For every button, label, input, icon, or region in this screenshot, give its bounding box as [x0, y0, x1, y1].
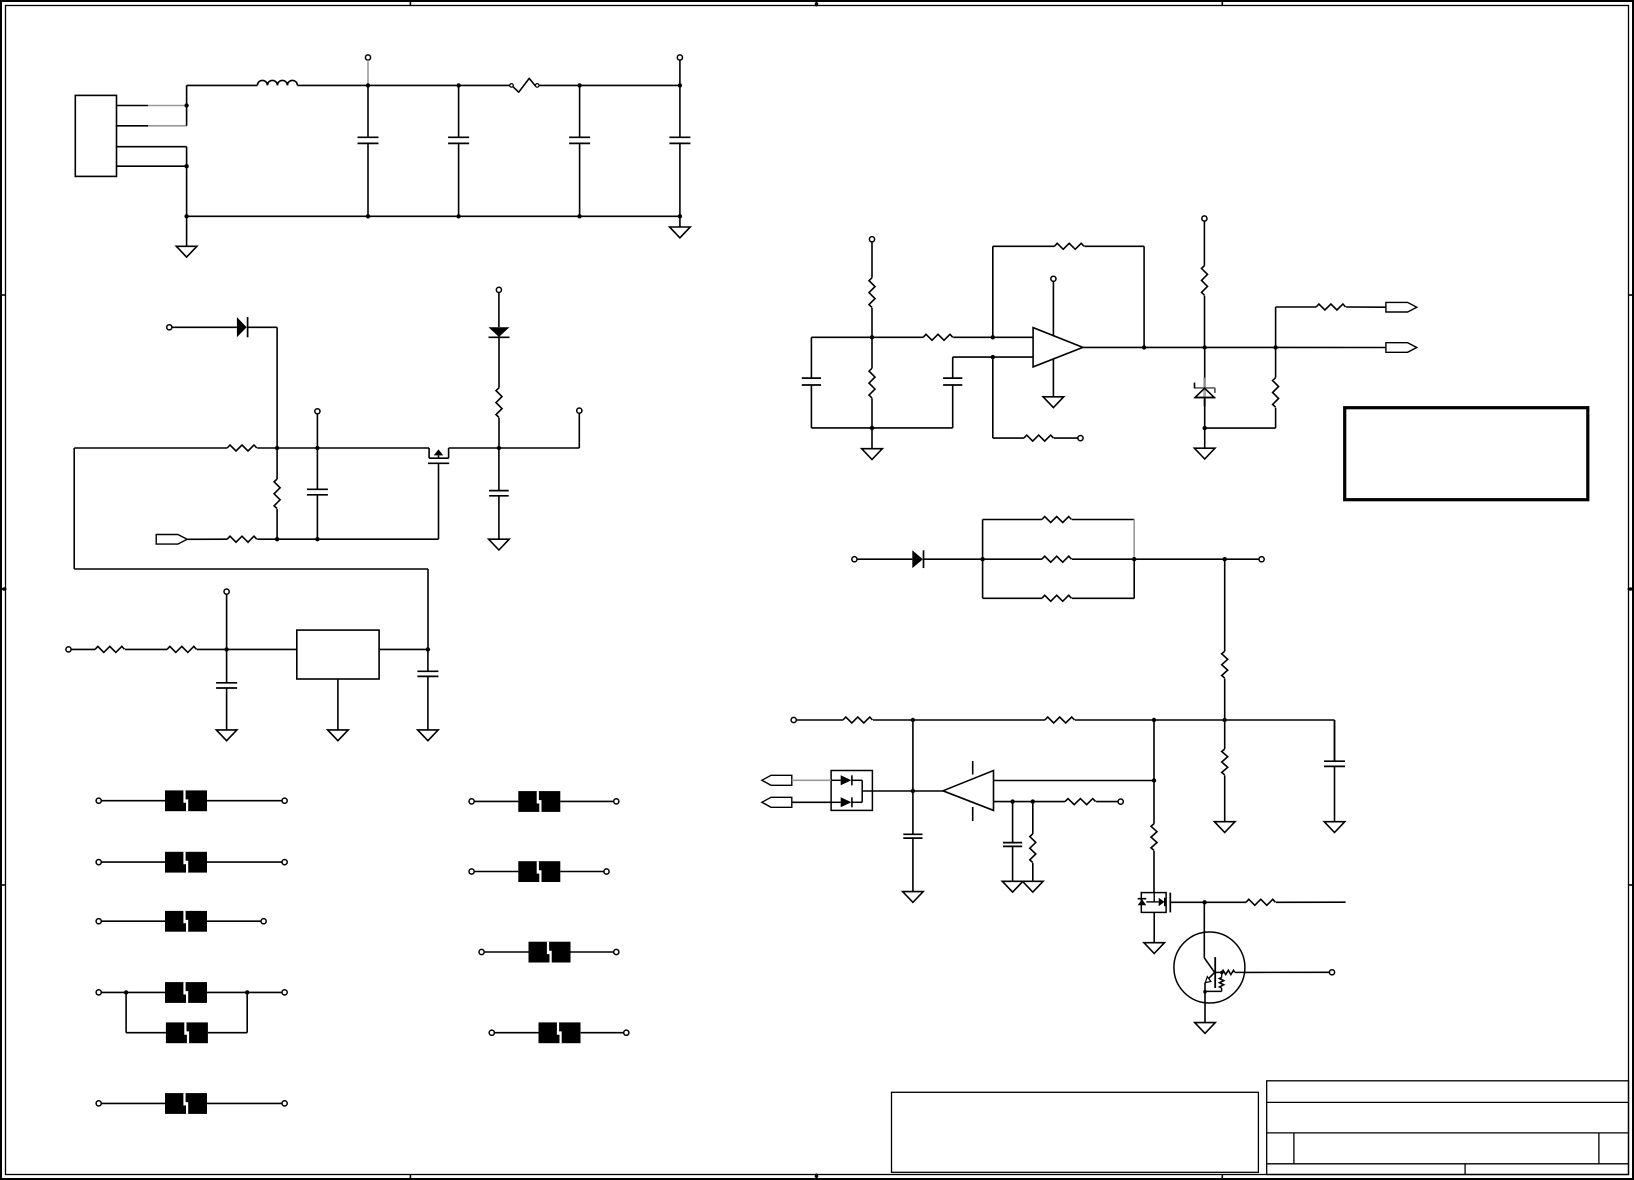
- wire div up: [1275, 307, 1277, 348]
- resistor R15: [1042, 517, 1072, 523]
- ferrite bead FB8: [518, 861, 560, 882]
- ground GND14: [903, 892, 924, 903]
- junction FB4 right: [245, 990, 249, 994]
- wire feedback down: [1143, 246, 1145, 347]
- junction opamp in+ node: [870, 335, 874, 339]
- border zone tick top-right: [1221, 1, 1223, 6]
- terminal T8: [224, 589, 229, 594]
- diode D1: [237, 317, 248, 337]
- terminal T11: [1202, 216, 1207, 221]
- terminal FB6 right: [282, 1101, 287, 1106]
- wire network top right: [1072, 519, 1134, 521]
- wire R1 to mosfet: [257, 447, 429, 449]
- terminal FB4 right: [282, 990, 287, 995]
- border zone tick right-lower: [1629, 884, 1634, 886]
- wire zener top: [1204, 348, 1206, 389]
- terminal FB3 right: [261, 919, 266, 924]
- resistor R20: [1045, 717, 1075, 723]
- junction R2 bottom: [275, 537, 279, 541]
- terminal T4: [315, 409, 320, 414]
- wire network to T13: [1134, 558, 1261, 560]
- wire D2 to R4: [498, 337, 500, 388]
- resistor R10: [869, 368, 875, 398]
- wire FB3 left: [101, 920, 165, 922]
- junction C1 top: [366, 83, 370, 87]
- wire R7 to node: [871, 308, 873, 338]
- junction J1 pin1: [184, 103, 188, 107]
- net flag OUT_B: [1386, 343, 1417, 353]
- border zone tick left-lower: [1, 884, 6, 886]
- wire flag IN_N: [792, 801, 831, 803]
- wire Q3 emitter gnd: [1204, 992, 1206, 1023]
- wire rail7 a: [796, 719, 843, 721]
- regulator U1: [297, 630, 379, 679]
- wire in- from cap: [953, 356, 1033, 358]
- resistor R12: [1202, 266, 1208, 296]
- ground GND3: [489, 539, 510, 550]
- junction gnd node opamp: [870, 426, 874, 430]
- wire FB3 right: [207, 920, 264, 922]
- wire comp out vertical: [912, 720, 914, 791]
- ground GND16: [1195, 1023, 1216, 1034]
- junction zener gnd: [1203, 426, 1207, 430]
- junction J1 pin4: [184, 164, 188, 168]
- junction C5 top: [315, 446, 319, 450]
- wire FB7 right: [560, 800, 616, 802]
- border zone tick right-upper: [1629, 294, 1634, 296]
- diode D3: [912, 550, 923, 568]
- wire R2 to bottom: [276, 509, 278, 539]
- wire R10 top: [871, 337, 873, 368]
- net flag IN_P: [762, 775, 792, 785]
- terminal T14: [791, 717, 796, 722]
- wire FB2 left: [101, 861, 165, 863]
- wire U2 gnd pin: [1052, 359, 1054, 397]
- capacitor C7: [216, 649, 237, 730]
- net flag IN_N: [762, 797, 792, 807]
- wire corner down to node A: [276, 327, 278, 448]
- wire network mid right: [1072, 558, 1134, 560]
- terminal FB9 right: [614, 949, 619, 954]
- terminal FB6 left: [96, 1101, 101, 1106]
- wire FB10 right: [581, 1032, 627, 1034]
- wire feedback top left: [993, 245, 1055, 247]
- junction output Rdiv: [1273, 345, 1277, 349]
- junction sense node: [1223, 557, 1227, 561]
- terminal FB1 left: [96, 798, 101, 803]
- resistor R7: [869, 278, 875, 308]
- capacitor C13: [903, 791, 922, 892]
- wire in- tap down: [992, 357, 994, 438]
- dual diode D4/D5 package: [831, 771, 872, 811]
- wire comp in+ rail: [994, 780, 1155, 782]
- wire R4 to node: [498, 418, 500, 448]
- inductor L1: [257, 80, 297, 85]
- border zone tick top-center with dot: [815, 1, 819, 7]
- resistor R11: [1024, 435, 1054, 441]
- terminal T5: [496, 287, 501, 292]
- wire feedback top right: [1084, 245, 1144, 247]
- resistor R21: [1222, 749, 1228, 775]
- junction C3 top: [577, 83, 581, 87]
- terminal T10: [1078, 436, 1083, 441]
- wire R22 to Q2: [1153, 851, 1155, 893]
- wire R18 to rail: [1224, 678, 1226, 720]
- wire J1 pin2 black part: [117, 125, 149, 127]
- wire U1 gnd pin: [337, 679, 339, 730]
- resistor R19: [843, 717, 873, 723]
- ground GND8 U2: [1043, 397, 1064, 408]
- ferrite bead FB6: [165, 1093, 207, 1114]
- wire R25 dangling: [1276, 901, 1346, 903]
- junction FB4 left: [124, 990, 128, 994]
- junction comp in+: [1152, 778, 1156, 782]
- junction feedback node: [991, 335, 995, 339]
- wire J1 pin2 gray part: [148, 125, 187, 127]
- wire T9 stem: [871, 242, 873, 278]
- wire network left vertical: [982, 520, 984, 599]
- op-amp U2: [1033, 328, 1083, 367]
- resistor R13: [1273, 378, 1279, 408]
- junction rail7 x3: [1223, 718, 1227, 722]
- wire R10 bottom: [871, 398, 873, 428]
- wire R8 to opamp: [953, 336, 1033, 338]
- ferrite bead FB9: [529, 942, 571, 963]
- wire Q1 to C6: [449, 447, 580, 449]
- wire sense down: [1224, 559, 1226, 651]
- ground GND9: [1194, 428, 1215, 459]
- wire tap to R11: [993, 437, 1024, 439]
- border zone tick bottom-left: [409, 1175, 411, 1180]
- wire comp in- rail: [994, 801, 1033, 803]
- junction rail7 x2: [1152, 718, 1156, 722]
- resistor R25: [1246, 899, 1276, 905]
- wire network right vertical lower: [1133, 559, 1135, 598]
- wire bottom rail opamp: [811, 427, 952, 429]
- wire FB10 left: [495, 1032, 539, 1034]
- transistor Q3 (digital): [1174, 932, 1245, 1003]
- border zone tick right-center with dot: [1628, 587, 1634, 591]
- wire FB7 left: [474, 800, 518, 802]
- wire node-A rail left: [74, 447, 227, 449]
- wire J1 pin1 black part: [117, 105, 149, 107]
- wire top rail segment 1: [187, 84, 258, 86]
- wire comp in+ vertical: [1153, 720, 1155, 781]
- junction bottom rail left: [184, 214, 188, 218]
- wire in+ rail: [811, 336, 923, 338]
- ground GND6: [418, 730, 439, 741]
- terminal FB9 left: [479, 949, 484, 954]
- wire node A to R2: [276, 448, 278, 479]
- junction network left: [980, 557, 984, 561]
- wire FB6 right: [207, 1102, 285, 1104]
- wire FB5 left horizontal: [126, 1032, 166, 1034]
- wire FB8 right: [560, 871, 606, 873]
- terminal FB7 right: [614, 799, 619, 804]
- wire right branch down: [1334, 720, 1336, 761]
- terminal T3: [167, 325, 172, 330]
- ground GND7: [862, 428, 883, 460]
- wire network right vertical upper gray: [1133, 520, 1135, 560]
- terminal T7: [66, 647, 71, 652]
- ferrite bead FB2: [165, 852, 207, 873]
- wire T3 to D1: [172, 326, 237, 328]
- junction Q2 gate node: [1202, 900, 1206, 904]
- wire loop bottom horizontal: [74, 568, 428, 570]
- comparator U3: [943, 771, 994, 811]
- wire zener bottom: [1204, 397, 1206, 428]
- ground GND10: [1324, 822, 1345, 833]
- ferrite bead FB10: [539, 1022, 581, 1043]
- resistor R9 feedback: [1054, 243, 1084, 249]
- ferrite bead FB5: [166, 1022, 208, 1043]
- ground GND4: [216, 730, 237, 741]
- terminal T9: [869, 237, 874, 242]
- junction C2 top: [456, 83, 460, 87]
- terminal FB2 right: [282, 860, 287, 865]
- wire J1 pin1 gray part: [148, 105, 187, 107]
- border zone tick left-upper: [1, 294, 6, 296]
- terminal T12: [852, 557, 857, 562]
- wire comp output: [872, 790, 943, 792]
- wire FB4 right: [207, 991, 285, 993]
- junction C4 top: [678, 83, 682, 87]
- terminal FB4 left: [96, 990, 101, 995]
- wire J1 pin3: [117, 146, 187, 148]
- wire Q3 out: [1245, 971, 1330, 973]
- ground GND11: [1214, 822, 1235, 833]
- terminal FB7 left: [469, 799, 474, 804]
- zener diode Z1: [1194, 378, 1215, 407]
- ground GND5: [328, 730, 349, 741]
- wire Q2 gate: [1170, 901, 1204, 903]
- wire R13 top: [1275, 348, 1277, 378]
- wire T12 to D3: [857, 558, 912, 560]
- wire FB4 left: [101, 991, 165, 993]
- ground GND15: [1144, 943, 1165, 954]
- wire terminal VOUT1 stem: [679, 60, 681, 85]
- wire feedback up: [992, 246, 994, 337]
- wire top rail segment 3: [539, 84, 680, 86]
- fuse F1: [510, 78, 539, 92]
- wire T8 stem: [226, 594, 228, 649]
- wire T7 to R5: [71, 648, 95, 650]
- capacitor C2: [448, 85, 469, 216]
- net flag GATE_IN: [156, 535, 187, 545]
- wire rail7 c: [1075, 719, 1335, 721]
- terminal T6: [577, 408, 582, 413]
- terminal VOUT1: [677, 55, 682, 60]
- resistor R23: [1030, 834, 1036, 863]
- wire R21 top: [1224, 720, 1226, 749]
- resistor R8: [923, 334, 953, 340]
- wire R23 bottom: [1032, 863, 1034, 881]
- resistor R1: [227, 445, 257, 451]
- wire FB5 right vertical: [246, 992, 248, 1032]
- wire loop left vertical: [73, 448, 75, 569]
- junction C1 bottom: [366, 214, 370, 218]
- wire R24 to T15: [1096, 801, 1118, 803]
- wire zener to R13: [1205, 427, 1276, 429]
- resistor R24: [1065, 799, 1096, 805]
- junction R23 top: [1031, 799, 1035, 803]
- wire Q2 source gnd: [1153, 912, 1155, 942]
- junction C5 bottom: [315, 537, 319, 541]
- bold annotation box: [1345, 408, 1588, 500]
- resistor R2: [274, 479, 280, 509]
- wire pins3-4 vertical to bottom rail: [186, 147, 188, 217]
- terminal VIN: [365, 55, 370, 60]
- capacitor C4: [669, 85, 690, 216]
- diode D2: [489, 327, 510, 337]
- junction comp out: [911, 789, 915, 793]
- wire R13 bottom: [1275, 408, 1277, 428]
- wire R5 to R6: [125, 648, 167, 650]
- border zone tick bottom-center with dot: [815, 1174, 819, 1180]
- junction in- node: [991, 355, 995, 359]
- junction C6 top: [497, 446, 501, 450]
- wire FB9 left: [484, 951, 528, 953]
- junction output fb: [1142, 345, 1146, 349]
- border zone tick top-left: [409, 1, 411, 6]
- border zone tick bottom-right: [1221, 1175, 1223, 1180]
- wire Q1 gate down: [438, 463, 440, 539]
- title block notes box: [892, 1092, 1259, 1172]
- wire R23 stem: [1032, 802, 1034, 834]
- wire U2 power pin: [1052, 282, 1054, 336]
- wire D1 to corner: [248, 326, 278, 328]
- junction C3 bottom: [577, 214, 581, 218]
- terminal FB10 right: [624, 1030, 629, 1035]
- resistor R16: [1042, 556, 1072, 562]
- capacitor C3: [569, 85, 590, 216]
- terminal T16: [1329, 970, 1334, 975]
- wire R6 to U1: [197, 648, 297, 650]
- wire gate to R25: [1205, 901, 1246, 903]
- ground GND12: [1002, 881, 1023, 892]
- resistor R4: [496, 388, 502, 418]
- terminal FB3 left: [96, 919, 101, 924]
- wire J1 pin4: [117, 165, 187, 167]
- terminal FB8 left: [469, 869, 474, 874]
- wire rail7 b: [873, 719, 1045, 721]
- wire U3 vcc stroke: [972, 761, 974, 775]
- ground GND1: [176, 216, 197, 257]
- junction C2 bottom: [456, 214, 460, 218]
- wire FB5 right horizontal: [208, 1032, 247, 1034]
- ferrite bead FB1: [165, 790, 207, 811]
- wire network mid left: [983, 558, 1042, 560]
- capacitor C9: [802, 337, 821, 428]
- wire flag to R3: [187, 538, 227, 540]
- capacitor C8: [417, 649, 438, 730]
- junction rail7 x1: [911, 718, 915, 722]
- resistor R18: [1222, 651, 1228, 678]
- junction C7 top: [224, 647, 228, 651]
- wire U3 gnd stroke: [972, 807, 974, 821]
- wire FB5 left vertical: [125, 992, 127, 1032]
- junction C4 bottom: [678, 214, 682, 218]
- capacitor C10: [943, 357, 962, 428]
- connector J1: [75, 95, 116, 176]
- border zone tick left-center with dot: [1, 587, 7, 591]
- terminal U2 V+: [1051, 276, 1056, 281]
- resistor R5: [95, 646, 125, 652]
- capacitor C11: [1324, 720, 1345, 822]
- terminal FB2 left: [96, 860, 101, 865]
- wire network bottom left: [983, 597, 1042, 599]
- wire comp tap down: [1153, 781, 1155, 824]
- wire R12 down: [1204, 296, 1206, 348]
- junction U1 out: [426, 647, 430, 651]
- wire T5 stem: [498, 293, 500, 328]
- terminal FB8 right: [604, 869, 609, 874]
- wire Q3 collector vertical: [1203, 902, 1205, 958]
- resistor R14: [1316, 304, 1346, 310]
- wire top rail segment 2: [297, 84, 509, 86]
- terminal T13: [1259, 557, 1264, 562]
- ground GND2: [670, 216, 691, 238]
- wire div top: [1276, 306, 1317, 308]
- ground GND13: [1023, 881, 1044, 892]
- wire T4 stem: [316, 414, 318, 448]
- wire FB8 left: [474, 871, 518, 873]
- wire bottom rail: [187, 215, 680, 217]
- wire opamp output: [1083, 346, 1386, 348]
- capacitor C5: [307, 448, 328, 539]
- resistor R22: [1151, 824, 1157, 851]
- terminal FB1 right: [282, 798, 287, 803]
- junction node A: [275, 446, 279, 450]
- wire R3 to gate: [257, 538, 438, 540]
- mosfet Q1: [428, 448, 449, 463]
- wire FB1 left: [101, 800, 165, 802]
- wire D3 to network: [924, 558, 983, 560]
- junction output zener: [1203, 345, 1207, 349]
- ferrite bead FB7: [518, 791, 560, 812]
- terminal T15: [1118, 799, 1123, 804]
- capacitor C1: [358, 85, 379, 216]
- wire network top left: [983, 519, 1042, 521]
- capacitor C12: [1003, 802, 1022, 882]
- capacitor C6: [489, 448, 509, 539]
- wire R21 bottom: [1224, 775, 1226, 821]
- junction network right: [1132, 557, 1136, 561]
- ferrite bead FB3: [165, 911, 207, 932]
- resistor R17: [1042, 595, 1072, 601]
- wire terminal VIN stem gray: [367, 60, 369, 85]
- wire flag IN_P gray: [792, 779, 831, 781]
- wire U1 out: [379, 648, 428, 650]
- wire R11 to T10: [1054, 437, 1078, 439]
- title block table: [1267, 1081, 1629, 1175]
- wire loop down to regulator out: [427, 569, 429, 649]
- ferrite bead FB4: [165, 982, 207, 1003]
- wire network bottom right: [1072, 597, 1134, 599]
- wire C9 top corner: [810, 336, 812, 338]
- mosfet Q2: [1138, 893, 1171, 913]
- wire FB9 right: [571, 951, 617, 953]
- wire FB6 left: [101, 1102, 165, 1104]
- wire up to T6: [578, 413, 580, 448]
- wire FB2 right: [207, 861, 285, 863]
- wire T11 stem: [1203, 221, 1205, 265]
- resistor R6: [167, 646, 197, 652]
- wire pins1-2 vertical: [186, 85, 188, 125]
- wire R14 to flag: [1346, 306, 1386, 308]
- junction C12 top: [1010, 799, 1014, 803]
- wire FB1 right: [207, 800, 285, 802]
